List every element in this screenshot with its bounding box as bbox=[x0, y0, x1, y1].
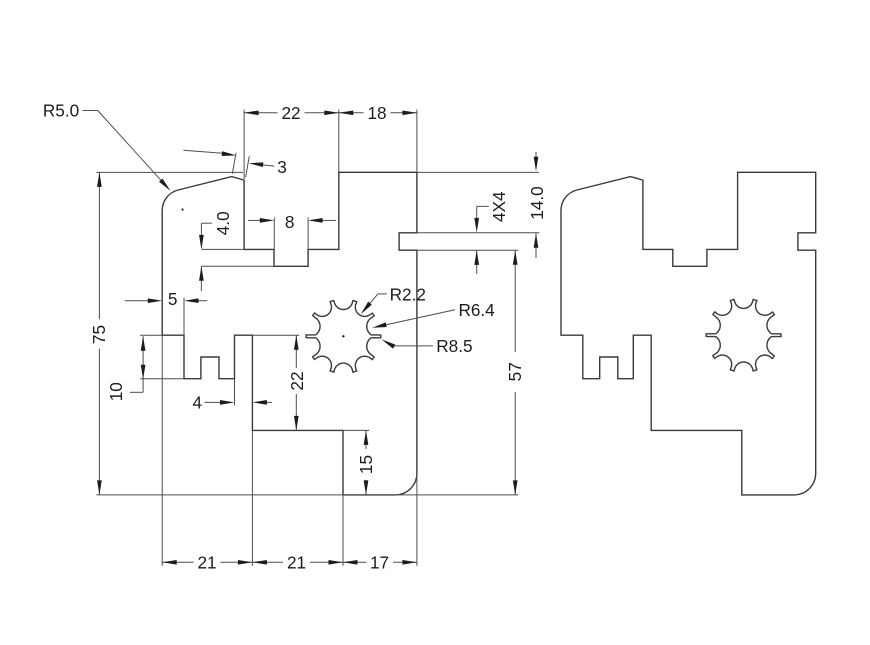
stray reference dot near corner bbox=[181, 208, 183, 210]
dimension 21, bottom left bbox=[162, 335, 252, 566]
dimension 4, lower slot width bbox=[205, 379, 272, 406]
leader R2.2, spline valley radius bbox=[367, 294, 387, 308]
svg-text:R2.2: R2.2 bbox=[390, 284, 426, 304]
svg-text:22: 22 bbox=[287, 371, 307, 390]
center mark, sprocket hole bbox=[342, 335, 344, 337]
dimension 21, bottom middle bbox=[252, 495, 343, 566]
part outline, left dimensioned view bbox=[162, 172, 417, 495]
dimension 3, chamfer bbox=[183, 150, 274, 177]
part outline, right plain view bbox=[561, 172, 816, 495]
svg-text:75: 75 bbox=[89, 325, 109, 344]
svg-text:15: 15 bbox=[356, 455, 376, 474]
dimension 14.0, keyway position bbox=[417, 152, 539, 258]
svg-text:R8.5: R8.5 bbox=[436, 336, 472, 356]
splined sprocket hole, right view bbox=[706, 299, 781, 371]
leader R6.4, spline root circle bbox=[386, 310, 455, 325]
dimension 75, left vertical bbox=[96, 172, 518, 495]
svg-text:14.0: 14.0 bbox=[527, 186, 547, 219]
svg-text:R5.0: R5.0 bbox=[43, 101, 79, 121]
svg-text:8: 8 bbox=[285, 212, 295, 232]
svg-text:17: 17 bbox=[370, 552, 389, 572]
svg-text:21: 21 bbox=[197, 552, 216, 572]
svg-text:3: 3 bbox=[277, 157, 287, 177]
svg-text:22: 22 bbox=[281, 103, 300, 123]
dimension 15, bottom step height bbox=[343, 430, 369, 495]
dimension 17, bottom right bbox=[343, 474, 417, 566]
leader R8.5, spline outer radius bbox=[393, 345, 433, 347]
svg-text:10: 10 bbox=[106, 382, 126, 401]
dimension 10, left step height bbox=[130, 335, 184, 392]
svg-text:21: 21 bbox=[287, 552, 306, 572]
svg-text:4.0: 4.0 bbox=[213, 211, 233, 235]
dimension 22, middle vertical bbox=[252, 335, 299, 430]
svg-text:57: 57 bbox=[505, 362, 525, 381]
dimension 18, top horizontal bbox=[339, 110, 417, 173]
splined sprocket hole, left view bbox=[306, 301, 381, 373]
svg-text:4X4: 4X4 bbox=[489, 191, 509, 222]
dimension 8, top notch width bbox=[248, 217, 336, 249]
dimension 4X4, keyway size bbox=[477, 206, 489, 274]
svg-text:R6.4: R6.4 bbox=[458, 300, 495, 320]
leader R5.0, corner radius bbox=[83, 111, 162, 181]
svg-text:18: 18 bbox=[367, 103, 386, 123]
dimension 5, left step width bbox=[125, 298, 208, 336]
svg-text:5: 5 bbox=[168, 289, 178, 309]
dimension 57, right vertical bbox=[417, 250, 518, 495]
dimension 4.0, step height bbox=[201, 223, 274, 291]
svg-text:4: 4 bbox=[193, 393, 203, 413]
dimension 22, top horizontal bbox=[244, 110, 339, 180]
